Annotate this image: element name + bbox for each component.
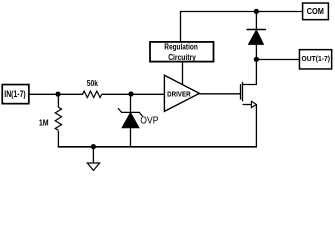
op-amp U1 DRIVER buffer: [164, 75, 199, 111]
wire: MOSFET source down to ground rail: [255, 105, 257, 147]
wire: 1M down to ground rail: [57, 131, 59, 147]
svg-text:COM: COM: [307, 7, 324, 16]
svg-text:OVP: OVP: [140, 116, 158, 127]
wire: OVP anode down to ground rail: [130, 128, 132, 147]
svg-text:IN(1-7): IN(1-7): [4, 89, 25, 99]
wire: 50k to DRIVER input: [102, 93, 165, 95]
terminal: OUT(1-7): [299, 50, 331, 69]
diode OVP (zener clamp): [118, 108, 143, 128]
svg-text:DRIVER: DRIVER: [167, 90, 191, 99]
resistor 50k: [83, 91, 102, 97]
wire: junction down to 1M resistor: [57, 94, 59, 107]
node: input junction to 1M: [55, 92, 60, 97]
wire: IN box to 50k resistor (main input row): [29, 93, 83, 95]
wire: bottom ground rail: [58, 146, 257, 148]
block: Regulation Circuitry: [150, 42, 214, 62]
wire: output node down to MOSFET drain: [243, 60, 257, 85]
svg-text:Circuitry: Circuitry: [168, 52, 196, 62]
wire: output node to OUT box: [256, 59, 299, 61]
wire: DRIVER output to MOSFET gate: [199, 93, 241, 95]
terminal: IN(1-7): [2, 85, 29, 104]
ground: [87, 147, 99, 171]
wire: top supply rail to COM: [180, 11, 302, 13]
svg-text:50k: 50k: [87, 79, 99, 88]
wire: diode anode down to output node: [255, 44, 257, 59]
terminal: COM: [303, 3, 329, 20]
wire: supply rail down to diode: [255, 12, 257, 30]
svg-text:OUT(1-7): OUT(1-7): [302, 54, 331, 63]
resistor 1M: [55, 107, 61, 130]
node: ground tap junction: [91, 144, 96, 149]
transistor Q1 (output MOSFET): [241, 82, 257, 108]
node: OVP junction: [128, 91, 133, 96]
node: output junction: [254, 57, 259, 62]
wire: regulation box top to supply rail: [180, 12, 182, 43]
svg-text:Regulation: Regulation: [164, 42, 198, 52]
wire: regulation box bottom to driver: [182, 62, 184, 86]
node: diode cathode junction on supply rail: [254, 9, 259, 14]
diode D1 (clamp diode to COM rail): [247, 30, 267, 45]
wire: junction down to OVP zener: [130, 94, 132, 112]
svg-text:1M: 1M: [39, 119, 49, 128]
